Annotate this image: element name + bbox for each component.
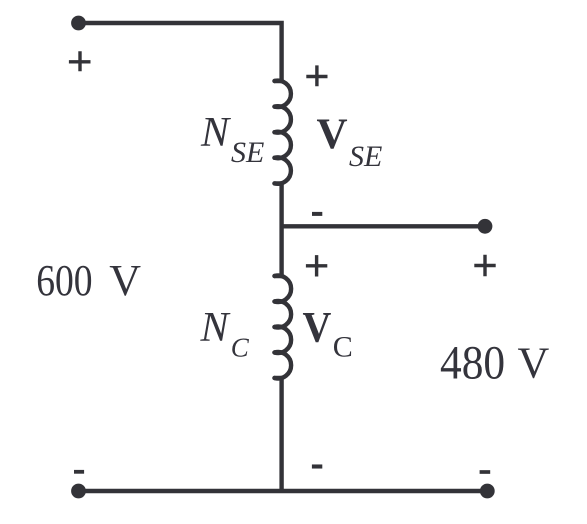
inductor NC (common winding) [275, 276, 292, 379]
svg-text:V: V [303, 303, 332, 351]
terminal dot (480 V + output) [478, 219, 493, 234]
svg-text:C: C [333, 330, 353, 363]
value label 600 V [36, 256, 92, 304]
terminal dot (480 V - output) [480, 484, 495, 499]
wire: NSE bottom to NC top (through center tap junction) [279, 183, 283, 276]
terminal dot (600 V + input) [71, 16, 86, 31]
label VC (common voltage) [303, 303, 332, 351]
svg-text:N: N [200, 110, 231, 156]
svg-text:V: V [109, 256, 141, 305]
svg-text:V: V [518, 339, 550, 388]
svg-text:480: 480 [440, 336, 505, 389]
polarity - (480 V bottom) [480, 470, 491, 474]
svg-text:V: V [317, 111, 348, 158]
svg-text:SE: SE [349, 140, 382, 173]
polarity - (600 V bottom) [74, 470, 84, 474]
svg-text:C: C [231, 332, 250, 362]
wire: NC bottom to bottom rail [279, 378, 283, 491]
polarity - (VC bottom) [312, 464, 322, 468]
wire: center tap to 480 V terminal [282, 224, 485, 228]
wire bottom rail [79, 489, 488, 493]
svg-text:600: 600 [36, 256, 92, 304]
polarity + (600 V input) [69, 51, 91, 71]
polarity + (480 V terminal) [474, 255, 495, 276]
value label 480 V [440, 336, 505, 389]
terminal dot (600 V - input) [71, 484, 86, 499]
polarity - (VSE bottom) [312, 212, 322, 216]
polarity + (VC top) [306, 255, 327, 276]
inductor NSE (series winding) [275, 81, 291, 184]
polarity + (VSE top) [306, 65, 327, 86]
wire top: input terminal to series winding [79, 23, 282, 81]
svg-text:SE: SE [231, 136, 264, 169]
svg-text:N: N [200, 305, 231, 351]
